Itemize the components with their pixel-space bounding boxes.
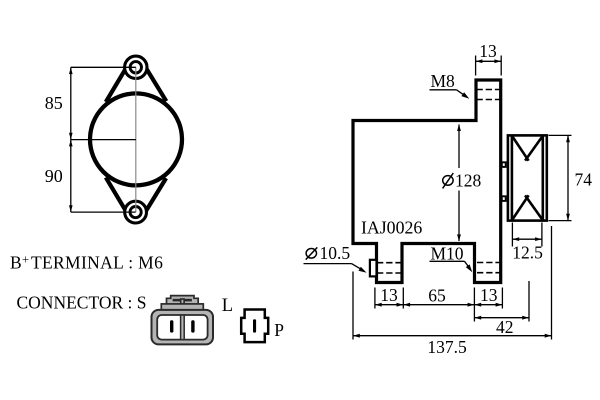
connector S: pin L: [170, 320, 173, 332]
svg-text:90: 90: [45, 166, 63, 186]
front view: stator body circle: [90, 93, 182, 185]
side view: shaft spacer tick lower: [502, 196, 506, 201]
dimension 13 (top) extension lines: [475, 56, 477, 76]
side view: right foot thread dashed lines: [477, 262, 500, 264]
dimension 13 (top) line: [476, 60, 502, 62]
svg-text:85: 85: [45, 93, 63, 113]
pulley: bottom V-groove: [513, 195, 529, 219]
front view: reference line bottom hole: [71, 211, 136, 213]
svg-text:CONNECTOR : S: CONNECTOR : S: [17, 293, 147, 313]
front view: reference line top hole: [71, 66, 136, 68]
svg-text:74: 74: [575, 170, 593, 190]
svg-text:IAJ0026: IAJ0026: [361, 218, 422, 238]
svg-text:L: L: [222, 296, 233, 316]
connector S: pin R: [191, 320, 194, 332]
svg-text:10.5: 10.5: [320, 243, 351, 263]
dimension text diameter 128: [443, 176, 453, 186]
side view: M8 thread dashed lines: [477, 89, 501, 91]
pulley: right flange inner line: [541, 135, 544, 220]
pulley: rim outline: [508, 135, 547, 220]
connector S: cavity: [157, 315, 207, 340]
side view: shaft spacer tick upper: [502, 162, 506, 167]
svg-text:13: 13: [380, 285, 398, 305]
side view: mounting ear (10.5 hole boss): [370, 260, 377, 277]
front view: top hole inner ring: [130, 62, 141, 73]
dimension 13-65-13 extension lines: [374, 288, 376, 309]
dimension 42 extension line: [528, 281, 530, 322]
svg-text:13: 13: [480, 285, 498, 305]
front view: reference line centre: [71, 139, 136, 141]
front view: top mounting lug: [106, 62, 167, 103]
dimension diameter 128 arrow line: [458, 125, 460, 169]
connector P: housing: [241, 310, 268, 343]
side view: body outline: [353, 80, 501, 283]
svg-text:M8: M8: [431, 71, 456, 91]
dimension 74 extension ticks: [549, 134, 572, 136]
connector S: neck tab: [161, 304, 203, 310]
svg-text:42: 42: [496, 317, 514, 337]
dimension line 85/90: [70, 67, 72, 212]
connector P: pin: [253, 319, 256, 332]
callout diameter 10.5: [306, 249, 316, 259]
pulley: top V-groove: [513, 137, 529, 161]
dimension 12.5 line: [512, 238, 542, 240]
svg-text:B+TERMINAL : M6: B+TERMINAL : M6: [10, 253, 163, 273]
svg-text:P: P: [274, 320, 284, 340]
side view: left foot thread dashed lines: [377, 262, 401, 264]
front view: top hole outer ring: [125, 56, 147, 78]
connector S: upper key tab: [167, 296, 199, 305]
dimension 74 line: [567, 135, 569, 220]
svg-text:128: 128: [455, 170, 482, 190]
front view: bottom mounting lug: [106, 177, 166, 217]
dimension 12.5 extension lines: [511, 223, 513, 247]
dimension 137.5 extension lines: [352, 272, 354, 340]
connector S: key tee: [173, 299, 192, 302]
connector S: housing: [152, 310, 214, 345]
connector S: divider: [181, 315, 185, 340]
front view: bottom hole outer ring: [125, 201, 147, 223]
pulley: left flange inner line: [511, 135, 514, 220]
svg-text:65: 65: [428, 286, 446, 306]
dimension 137.5 line: [353, 335, 552, 337]
svg-text:137.5: 137.5: [427, 337, 467, 357]
dimension 42 line: [474, 317, 529, 319]
svg-text:13: 13: [479, 41, 497, 61]
front view: vertical centre line: [135, 67, 137, 212]
svg-text:12.5: 12.5: [512, 242, 543, 262]
svg-text:M10: M10: [431, 243, 464, 263]
front view: bottom hole inner ring: [130, 207, 141, 218]
dimension 13-65-13 line: [375, 304, 503, 306]
